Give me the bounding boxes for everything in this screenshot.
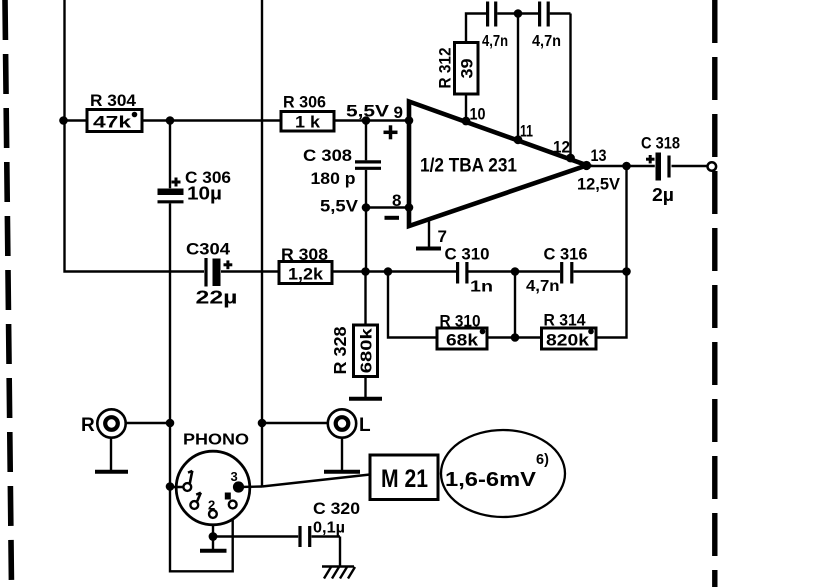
wire main input row [65,119,409,121]
svg-text:R 306: R 306 [283,93,326,112]
node R310 R314 junction [511,333,520,342]
svg-text:C 308: C 308 [303,146,352,165]
label 5,5V bottom [320,197,359,216]
wire output row [587,165,708,167]
label R328 [330,326,350,374]
pin labels op-amp [394,103,403,122]
svg-text:R 314: R 314 [544,311,586,330]
svg-text:1n: 1n [470,279,493,296]
label 4,7n second [532,33,561,50]
node feedback row right of left [384,267,393,276]
wire pin 11 riser [517,14,519,140]
svg-text:L: L [359,415,371,436]
phono pin 4 [190,493,200,509]
wire branch down to R310 row [388,272,437,338]
label C308 [303,146,356,188]
label C304 [186,240,238,308]
svg-text:8: 8 [392,191,401,210]
wire junction to M21 [262,475,370,487]
label PHONO [183,432,249,449]
node pin 8 edge [405,203,414,212]
wire op-amp pin 7 to ground [428,219,430,247]
wire R jack to node [126,422,171,424]
wire R328 branch to ground [364,272,366,398]
node pin 12 [566,154,575,163]
svg-text:13: 13 [591,146,607,165]
svg-text:C 316: C 316 [544,245,588,264]
svg-text:M 21: M 21 [381,465,428,493]
svg-text:9: 9 [394,103,403,122]
node pin 10 [462,117,471,126]
phono connector circle [176,451,250,525]
node feedback row left [361,267,370,276]
wire left vertical feed to feedback row [65,0,205,272]
wire R312 to pin 10 [465,94,467,121]
ground bar below R328 [349,397,382,401]
label L jack [359,415,371,436]
svg-text:10µ: 10µ [187,184,222,204]
svg-text:R 312: R 312 [436,48,455,89]
svg-text:C 318: C 318 [641,134,680,153]
svg-text:1,6-6mV: 1,6-6mV [445,469,537,491]
resistor R308 [279,262,332,284]
node pin 13 apex [582,161,591,170]
resistor R328 [354,325,378,377]
resistor R312 [455,43,479,95]
capacitor C306 [158,178,184,202]
module M21 box [370,455,438,500]
ground R jack [95,438,128,472]
wire second vertical from top [261,0,263,487]
label R314 [544,311,586,330]
svg-text:180 p: 180 p [311,169,356,188]
left dashed border [5,0,12,587]
svg-text:0,1µ: 0,1µ [313,520,345,537]
output level oval [441,430,565,517]
label C306 [185,168,231,204]
label R310 [440,312,481,331]
resistor R306 [281,112,334,132]
label C310 [445,245,494,296]
node output riser top [622,162,631,171]
phono pin 3 [231,469,245,493]
capacitor C308 [355,162,381,168]
node pin 11 [514,135,523,144]
svg-text:1 k: 1 k [295,114,321,132]
svg-text:2µ: 2µ [652,185,674,205]
capacitor C318 [646,153,669,181]
label R306 [283,93,326,112]
chassis ground under C320 [322,567,355,579]
op-amp plus input mark [384,125,398,139]
op-amp U1 1/2 TBA 231 [409,102,587,227]
wire C308 branch [365,121,367,272]
svg-text:68k: 68k [446,332,479,350]
wire C310/C316 junction down to R row [514,272,516,338]
node 5,5V pin 9 [362,116,371,125]
svg-text:39: 39 [457,59,476,79]
svg-text:7: 7 [438,227,447,246]
svg-text:C 320: C 320 [313,499,360,518]
wire R314 to output riser [596,166,627,338]
svg-text:C304: C304 [186,240,231,259]
ground L jack [324,438,360,472]
svg-text:47k: 47k [93,114,132,132]
resistor R304 [87,110,142,132]
phono pin 5 [225,493,237,509]
node pin2 C320 junction [209,532,218,541]
label C316 [526,245,588,296]
node output riser row [622,267,631,276]
svg-text:R 328: R 328 [330,326,350,374]
svg-text:4,7n: 4,7n [532,33,561,50]
op-amp minus input mark [385,216,400,220]
label 5,5V top [346,102,390,121]
capacitor C316 [562,262,572,284]
label R304 [90,91,137,110]
wire pin2 ground and C320 row [213,518,340,567]
capacitor C320 [300,526,310,547]
wire phono shield U loop [170,487,233,572]
wire top feedback loop with R312 [466,14,571,159]
output terminal [708,162,717,171]
node R jack line [166,419,175,428]
svg-text:680k: 680k [359,328,376,373]
svg-text:1/2 TBA 231: 1/2 TBA 231 [420,156,517,177]
wire L jack to node [262,422,328,424]
wire op-amp pin 8 [366,206,409,208]
label R312 [436,48,455,89]
node pin 9 edge [405,116,414,125]
svg-text:820k: 820k [546,332,590,350]
svg-text:C 310: C 310 [445,245,490,264]
svg-text:6): 6) [536,452,549,468]
node input left [59,116,68,125]
label C320 [313,499,360,537]
RCA jack R [97,409,125,437]
wire C306 branch down to phono [169,121,171,487]
node C306 top [166,116,175,125]
resistor R314 [542,328,597,350]
capacitor 4,7n second top [540,2,549,27]
svg-text:4,7n: 4,7n [482,33,508,50]
node L jack line [258,419,267,428]
label R308 [281,245,328,264]
label C318 [641,134,680,206]
capacitor C304 [206,258,232,287]
svg-text:10: 10 [470,105,486,124]
svg-text:4,7n: 4,7n [526,278,560,295]
svg-text:22µ: 22µ [196,288,238,308]
node C310 C316 junction [511,267,520,276]
wire into phono pin 1 [167,486,183,488]
svg-text:PHONO: PHONO [183,432,249,449]
svg-text:R 308: R 308 [281,245,328,264]
resistor R310 [437,328,487,350]
label 4,7n first [482,33,508,50]
wire pin 3 to junction [239,485,263,488]
node phono pin1 junction [166,482,175,491]
label 12,5V [577,175,621,194]
phono pin 2 [208,498,217,518]
ground bar pin 7 [416,247,441,251]
RCA jack L [328,409,356,437]
svg-text:R 304: R 304 [90,91,137,110]
capacitor C310 [458,262,467,284]
svg-text:12,5V: 12,5V [577,175,621,194]
node top caps junction [514,9,523,18]
svg-text:11: 11 [520,122,533,141]
svg-text:R 310: R 310 [440,312,481,331]
phono pin 1 [183,471,192,491]
wire feedback row through C304 C310 C316 [221,270,628,272]
node 5,5V pin 8 [362,203,371,212]
capacitor 4,7n first top [488,2,496,27]
ground bar pin2 [200,549,227,553]
svg-text:12: 12 [553,138,570,157]
svg-text:5,5V: 5,5V [320,197,359,216]
right dashed border [712,0,717,587]
wire between R310 and R314 [487,336,542,338]
svg-text:R: R [81,415,95,436]
svg-text:1,2k: 1,2k [288,266,324,284]
label R jack [81,415,95,436]
